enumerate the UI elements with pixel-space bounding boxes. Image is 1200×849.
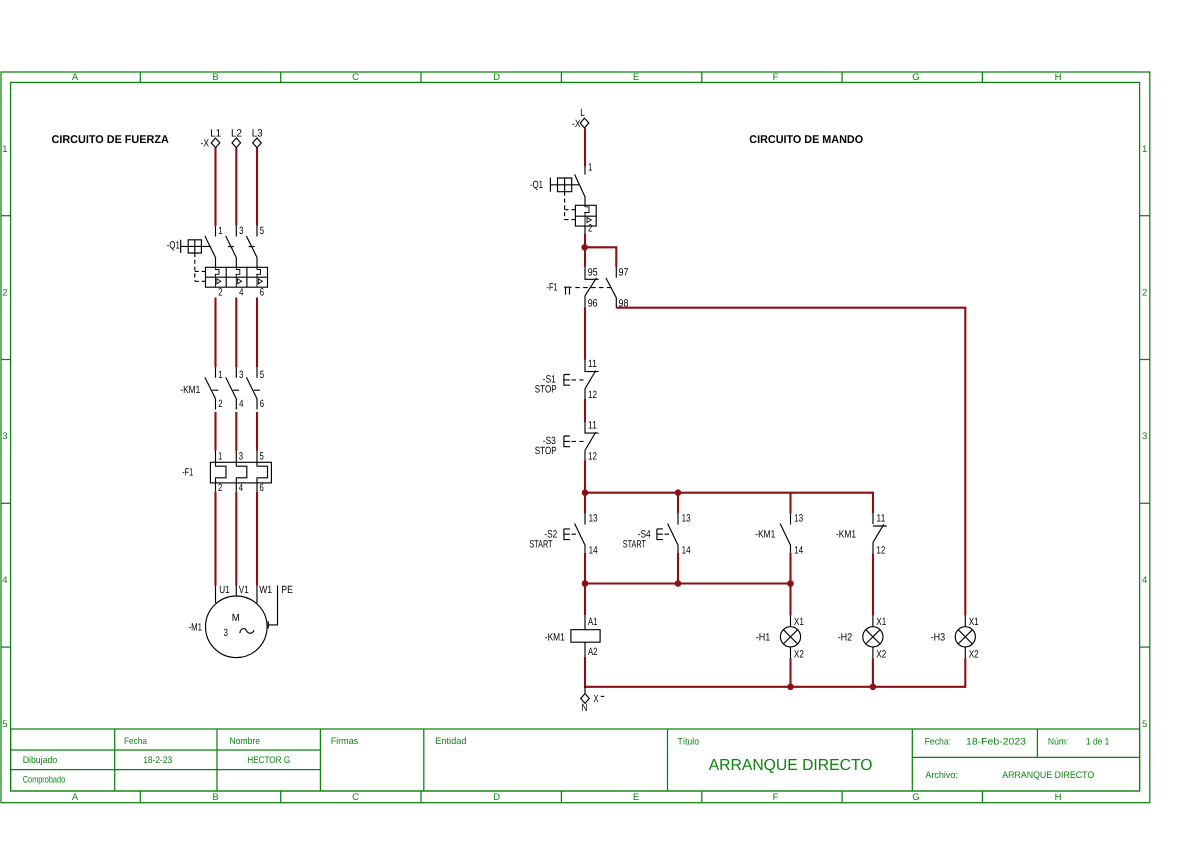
svg-text:3: 3 [1142,431,1147,442]
breaker Q1 block pole 2 elements [236,267,242,287]
terminal L3 [253,138,262,148]
breaker Q1 trip linkage dashed [195,253,206,281]
svg-text:X1: X1 [969,616,979,628]
wire N rail [585,686,965,688]
svg-text:D: D [493,72,500,83]
motor M1 lead-in lines [216,586,258,604]
svg-text:C: C [352,72,359,83]
wire Q1 aux to F1 95 [584,226,586,234]
pushbutton S4 wire from rail [677,493,679,514]
pushbutton KM1 wire from rail [789,493,791,514]
svg-text:1: 1 [218,450,222,462]
svg-text:N: N [582,702,588,714]
svg-text:-H2: -H2 [838,632,853,644]
svg-text:X1: X1 [794,616,804,628]
breaker Q1 block pole 3 elements [256,267,262,287]
svg-text:2: 2 [588,223,592,235]
breaker Q1 aux trip linkage dashed [565,192,576,220]
wire self-hold rail [585,492,873,494]
svg-text:11: 11 [588,420,597,432]
svg-text:2: 2 [1142,287,1147,298]
svg-text:L1: L1 [210,128,221,140]
svg-text:G: G [912,792,919,803]
svg-text:-KM1: -KM1 [545,632,565,644]
motor M1 circle [206,596,268,658]
pushbutton S2 actuator E [564,529,570,540]
svg-text:3: 3 [239,369,243,381]
svg-text:L3: L3 [252,128,263,140]
frame column tick top 1 [139,72,141,82]
wire F1 98 to H3 branch [616,308,965,616]
svg-text:1: 1 [588,161,592,173]
svg-text:-F1: -F1 [182,467,193,479]
wire L3 to Q1 [256,148,258,226]
pushbutton S3 NC contact [585,421,599,460]
svg-text:4: 4 [1142,575,1147,586]
svg-text:97: 97 [619,267,629,279]
terminal L diamond [580,118,589,128]
svg-text:4: 4 [239,398,243,410]
contactor KM1 NC aux contact [873,513,887,553]
svg-text:5: 5 [2,719,7,730]
svg-text:H: H [1055,792,1062,803]
svg-text:5: 5 [260,450,264,462]
drawing frame inner border [11,82,1140,791]
frame row tick left 1 [1,215,10,217]
svg-text:Núm:: Núm: [1048,736,1069,747]
svg-text:1 de 1: 1 de 1 [1086,736,1110,747]
svg-text:-KM1: -KM1 [180,384,200,396]
svg-text:2: 2 [218,398,222,410]
F1 aux trip symbol [564,287,572,294]
svg-text:-Q1: -Q1 [167,240,180,252]
svg-text:1: 1 [2,144,7,155]
wire L to Q1 aux [584,128,586,166]
F1 aux linkage dashed [575,287,610,289]
lamp H1 [790,615,792,658]
wire L2 to Q1 [235,148,237,226]
svg-text:C: C [352,792,359,803]
wire Q1 to KM1 pole 3 [256,298,258,368]
wire Q1 to KM1 pole 2 [235,298,237,368]
svg-text:18-Feb-2023: 18-Feb-2023 [966,736,1026,747]
svg-text:X: X [594,693,599,705]
svg-text:13: 13 [682,513,691,525]
lamp H2 wire to N rail [872,658,874,688]
svg-text:6: 6 [260,482,264,494]
pushbutton S2 NO contact [575,514,585,553]
junction node N rail at H2 [870,684,877,691]
wire KM1 NC aux to lamp H2 [872,554,874,616]
svg-text:START: START [529,538,553,550]
svg-text:X2: X2 [876,648,886,660]
svg-text:3: 3 [239,450,243,462]
svg-text:3: 3 [2,431,7,442]
frame column tick bottom 2 [280,791,282,803]
pushbutton S4 NO contact [668,514,678,553]
svg-text:3: 3 [239,225,243,237]
svg-text:Firmas: Firmas [331,736,359,747]
svg-text:V1: V1 [239,584,249,596]
lamp H1 wire to N rail [789,658,791,688]
frame column tick bottom 7 [981,791,983,803]
svg-text:12: 12 [588,389,597,401]
svg-text:CIRCUITO DE FUERZA: CIRCUITO DE FUERZA [52,134,169,146]
svg-text:-KM1: -KM1 [836,529,856,541]
svg-text:-X: -X [572,118,581,130]
breaker Q1 aux block [575,205,596,226]
wire S1 to S3 [584,399,586,422]
motor M1 ac tilde [240,629,254,634]
svg-text:X1: X1 [876,616,886,628]
wire F1 to motor pole 2 [235,492,237,586]
svg-text:12: 12 [876,545,885,557]
wire Q1 to KM1 pole 1 [214,298,216,368]
frame row tick right 2 [1140,359,1150,361]
wire L1 to Q1 [214,148,216,226]
motor M1 PE conductor [268,586,277,629]
wire lower rail [585,582,791,584]
pushbutton KM1 wire to lower rail [789,553,791,584]
svg-text:G: G [912,72,919,83]
svg-text:START: START [623,538,647,550]
pushbutton S2 actuator link dashed [572,533,581,535]
svg-text:F: F [773,72,779,83]
pushbutton S1 actuator E [564,375,570,386]
terminal N [581,687,590,704]
svg-text:-KM1: -KM1 [755,529,775,541]
svg-text:H: H [1055,72,1062,83]
junction node after Q1 aux [581,244,588,251]
svg-text:Dibujado: Dibujado [23,755,58,766]
svg-text:1: 1 [218,225,222,237]
title block outline [11,729,1140,791]
svg-text:F: F [773,792,779,803]
svg-text:X2: X2 [969,648,979,660]
svg-text:-H3: -H3 [931,632,946,644]
lamp H3 [964,615,966,658]
frame column tick top 3 [420,72,422,82]
svg-text:X2: X2 [794,648,804,660]
svg-text:1: 1 [218,369,222,381]
svg-text:ARRANQUE DIRECTO: ARRANQUE DIRECTO [709,757,873,774]
frame row tick left 3 [1,502,10,504]
wire F1 96 to S1 [584,307,586,360]
svg-text:CIRCUITO DE MANDO: CIRCUITO DE MANDO [749,134,863,146]
svg-text:95: 95 [588,267,598,279]
svg-text:Nombre: Nombre [230,736,261,747]
svg-text:E: E [633,792,639,803]
frame column tick top 7 [981,72,983,82]
breaker Q1 operating mechanism [181,240,211,253]
frame row tick right 1 [1140,215,1150,217]
thermal relay F1 element pole 3 [257,451,268,492]
thermal relay F1 box [210,462,271,483]
svg-text:D: D [493,792,500,803]
pushbutton S1 actuator link dashed [572,379,584,381]
svg-text:4: 4 [2,575,7,586]
svg-text:-X: -X [201,138,210,150]
wire F1 to motor pole 3 [256,492,258,586]
lamp H3 wire to N rail [964,658,966,688]
junction node lower rail at S4 [675,580,682,587]
svg-text:6: 6 [260,398,264,410]
frame column tick top 6 [841,72,843,82]
svg-text:-M1: -M1 [189,622,203,634]
frame row tick left 2 [1,359,10,361]
contactor KM1 contact pole 2 [226,367,239,409]
svg-text:A: A [72,792,79,803]
contactor KM1 contact pole 1 [205,367,218,409]
pushbutton S2 wire from rail [584,493,586,514]
breaker Q1 aux operating mechanism [550,178,579,192]
svg-text:Archivo:: Archivo: [925,770,958,781]
breaker Q1 block pole 1 elements [215,267,221,287]
wire lower rail to lamp H1 [789,584,791,616]
breaker Q1 contact pole 3 [246,226,257,268]
contactor KM1 contact pole 3 [246,367,259,409]
junction node N rail at H1 [787,684,794,691]
frame column tick bottom 5 [701,791,703,803]
svg-text:2: 2 [218,482,222,494]
contactor KM1 NC aux branch wire [872,492,874,514]
pushbutton S2 wire to lower rail [584,553,586,584]
svg-text:Fecha: Fecha [124,736,148,747]
svg-text:A2: A2 [588,646,598,658]
svg-text:PE: PE [281,584,293,596]
svg-text:4: 4 [239,482,243,494]
pushbutton S4 actuator E [657,529,663,540]
junction node rail at S2 [582,489,589,496]
svg-text:4: 4 [239,287,243,299]
frame column tick top 4 [560,72,562,82]
frame row tick right 3 [1140,502,1150,504]
svg-text:5: 5 [1142,719,1147,730]
frame column tick bottom 3 [420,791,422,803]
junction node rail at S4 [675,489,682,496]
pushbutton S3 actuator E [564,436,570,447]
svg-text:11: 11 [876,513,885,525]
svg-text:3: 3 [224,627,228,639]
svg-text:HECTOR G: HECTOR G [247,755,290,766]
contactor coil KM1 wire from rail [584,584,586,616]
svg-text:U1: U1 [219,584,230,596]
pushbutton S1 NC contact [585,360,599,399]
terminal L2 [232,138,241,148]
frame row tick right 4 [1140,646,1150,648]
svg-text:2: 2 [218,287,222,299]
breaker Q1 aux block elements [584,205,591,226]
junction node lower rail at coil [582,580,589,587]
F1 aux NC contact 95-96 [585,267,599,307]
svg-text:B: B [212,792,218,803]
svg-text:Comprobado: Comprobado [23,774,65,785]
wire F1 to motor pole 1 [214,492,216,586]
breaker Q1 thermal/magnetic block [206,267,268,287]
svg-text:12: 12 [588,450,597,462]
F1 aux NO contact 97-98 [606,267,616,307]
thermal relay F1 element pole 1 [216,451,227,492]
pushbutton KM1 NO contact [780,514,790,553]
junction node lower rail at KM1 aux [787,580,794,587]
svg-text:ARRANQUE DIRECTO: ARRANQUE DIRECTO [1002,770,1094,781]
svg-text:11: 11 [588,358,597,370]
svg-text:STOP: STOP [535,383,557,395]
wire S3 to rail [584,460,586,492]
svg-text:A: A [72,72,79,83]
svg-text:18-2-23: 18-2-23 [143,755,172,766]
svg-text:13: 13 [794,513,803,525]
svg-text:Fecha:: Fecha: [925,736,952,747]
svg-text:STOP: STOP [535,445,557,457]
svg-text:14: 14 [682,545,691,557]
frame column tick bottom 6 [841,791,843,803]
svg-text:E: E [633,72,639,83]
frame column tick top 5 [701,72,703,82]
svg-text:A1: A1 [588,616,598,628]
svg-text:L: L [580,107,585,119]
svg-text:-F1: -F1 [547,281,558,293]
svg-text:L2: L2 [231,128,242,140]
svg-text:14: 14 [794,545,803,557]
frame row tick left 4 [1,646,10,648]
svg-text:-Q1: -Q1 [530,179,543,191]
pushbutton S4 wire to lower rail [677,553,679,584]
svg-text:5: 5 [260,225,264,237]
svg-text:Título: Título [678,737,700,748]
pushbutton S3 actuator link dashed [572,440,584,442]
svg-text:14: 14 [589,545,598,557]
svg-text:-H1: -H1 [756,632,771,644]
wire branch to F1 97 [585,247,616,267]
svg-text:M: M [232,612,240,624]
breaker Q1 contact pole 1 [205,226,216,268]
lamp H2 [872,615,874,658]
breaker Q1 contact pole 2 [226,226,237,268]
wire coil KM1 to N rail [584,657,586,688]
svg-text:6: 6 [260,287,264,299]
contactor coil KM1 [571,615,600,657]
svg-text:96: 96 [588,298,598,310]
svg-text:W1: W1 [259,584,272,596]
svg-text:1: 1 [1142,144,1147,155]
thermal relay F1 element pole 2 [236,451,247,492]
title block dividers [11,729,1140,791]
wire KM1 to F1 pole 2 [235,412,237,451]
terminal L1 [211,138,220,148]
wire KM1 to F1 pole 3 [256,412,258,451]
frame column tick bottom 1 [139,791,141,803]
svg-text:B: B [212,72,218,83]
svg-text:13: 13 [589,513,598,525]
pushbutton S4 actuator link dashed [665,533,674,535]
svg-text:Entidad: Entidad [435,736,467,747]
wire KM1 to F1 pole 1 [214,412,216,451]
breaker Q1 aux contact [575,166,585,205]
frame column tick top 2 [280,72,282,82]
frame column tick bottom 4 [560,791,562,803]
svg-text:5: 5 [260,369,264,381]
svg-text:2: 2 [2,287,7,298]
